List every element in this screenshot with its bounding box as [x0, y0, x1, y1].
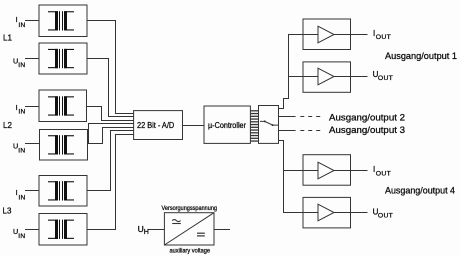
amplifier A1 triangle and through line [303, 34, 318, 36]
transformer T4 box (U_IN L2) [40, 130, 88, 161]
wire T4 to A/D lower branch [88, 128, 134, 144]
wire switch to lower amplifier pair [279, 141, 304, 213]
wire switch output 3 (dashed) [279, 130, 296, 132]
svg-text:I: I [16, 103, 18, 112]
wire output I_OUT 1 [351, 34, 368, 36]
wire T1 to A/D [87, 21, 134, 114]
wire T4 to A/D upper branch [89, 124, 134, 144]
amplifier A1 box [303, 19, 351, 50]
amplifier A2 triangle and through line [303, 76, 318, 78]
switch S1 pivot dot [264, 120, 266, 122]
wire T3 to A/D [87, 107, 134, 121]
svg-text:IN: IN [18, 62, 25, 69]
transformer T6 winding symbol [48, 220, 74, 239]
transformer T1 winding symbol [48, 11, 74, 30]
wire input U_IN L3 [25, 229, 39, 231]
svg-text:22 Bit - A/D: 22 Bit - A/D [137, 121, 174, 130]
transformer T3 winding symbol [48, 96, 74, 115]
wire A/D to microcontroller [183, 125, 205, 127]
transformer T1 box (I_IN L1) [39, 5, 87, 37]
amplifier A3 box [303, 155, 351, 186]
wire switch to upper amplifier pair [279, 35, 304, 109]
amplifier A2 box [303, 62, 351, 92]
output selector switch S1 box [259, 106, 279, 144]
wire input U_IN L2 [25, 143, 40, 145]
svg-text:IN: IN [18, 233, 25, 240]
transformer T5 winding symbol [48, 181, 74, 200]
supply converter diagonal [164, 213, 214, 245]
microcontroller U2 box [204, 106, 250, 143]
wire T2 to A/D [87, 59, 134, 117]
wire input I_IN L3 [25, 190, 39, 192]
wire supply output [214, 229, 230, 231]
wire junction to amplifier A2 [289, 76, 304, 78]
transformer T6 box (U_IN L3) [39, 214, 87, 246]
svg-text:L2: L2 [3, 121, 12, 130]
svg-text:Ausgang/output 3: Ausgang/output 3 [329, 125, 405, 135]
wire output U_OUT 4 [351, 212, 368, 214]
switch S1 contact symbol [260, 121, 278, 125]
wire junction to amplifier A3 [284, 170, 304, 172]
supply AC symbol [172, 220, 180, 222]
svg-text:IN: IN [18, 22, 25, 29]
svg-text:Versorgungsspannung: Versorgungsspannung [162, 205, 218, 212]
svg-text:L1: L1 [3, 34, 12, 43]
switch S1 contact dot [272, 124, 274, 126]
amplifier A4 box [303, 197, 351, 228]
svg-text:Ausgang/output 1: Ausgang/output 1 [385, 51, 457, 61]
svg-text:L3: L3 [3, 207, 12, 216]
transformer T2 box (U_IN L1) [39, 43, 87, 74]
supply DC symbol [197, 232, 205, 234]
wire input I_IN L2 [25, 106, 39, 108]
wire output U_OUT 1 [351, 76, 368, 78]
svg-text:Ausgang/output 2: Ausgang/output 2 [329, 112, 405, 122]
transformer T5 box (I_IN L3) [39, 176, 87, 207]
svg-text:I: I [16, 188, 18, 197]
svg-text:OUT: OUT [376, 34, 391, 41]
wire U_H input [148, 229, 164, 231]
svg-text:OUT: OUT [378, 212, 393, 219]
svg-text:IN: IN [18, 194, 25, 201]
wire input U_IN L1 [25, 58, 39, 60]
svg-text:auxiliary voltage: auxiliary voltage [170, 248, 211, 255]
A/D converter U1 box [134, 111, 183, 140]
svg-text:I: I [16, 15, 18, 24]
svg-text:OUT: OUT [376, 171, 391, 178]
svg-text:µ-Controller: µ-Controller [208, 121, 246, 130]
transformer T2 winding symbol [48, 49, 74, 68]
amplifier A3 triangle and through line [303, 170, 318, 172]
auxiliary supply converter box [164, 213, 214, 245]
wire input I_IN L1 [25, 20, 39, 22]
bus microcontroller to switch (ladder rungs) [250, 111, 258, 141]
wire switch output 2 (dashed) [279, 116, 296, 118]
svg-text:IN: IN [18, 108, 25, 115]
amplifier A4 triangle and through line [303, 212, 318, 214]
svg-text:IN: IN [18, 148, 25, 155]
svg-text:OUT: OUT [378, 75, 393, 82]
transformer T4 winding symbol [48, 135, 74, 154]
svg-text:Ausgang/output 4: Ausgang/output 4 [385, 186, 455, 196]
wire T6 to A/D [87, 135, 134, 230]
wire T5 to A/D [87, 131, 134, 191]
wire output I_OUT 4 [351, 170, 368, 172]
transformer T3 box (I_IN L2) [39, 90, 87, 122]
